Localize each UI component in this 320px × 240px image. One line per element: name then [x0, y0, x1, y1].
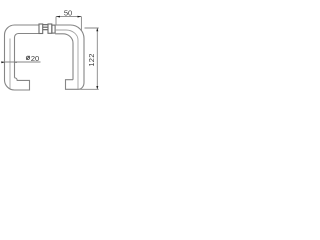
svg-text:20: 20: [31, 54, 39, 63]
dim 50: line: [56, 16, 81, 18]
right grip bottom curled end: [66, 80, 79, 90]
122 bottom arrow: [96, 86, 98, 89]
dim 50: extension lines: [56, 17, 81, 31]
122 top arrow: [96, 28, 98, 31]
dim 122: extension lines: [80, 28, 99, 89]
left lever grip middle contour line: [9, 39, 11, 89]
50 left arrow: [56, 16, 60, 18]
svg-text:122: 122: [87, 53, 96, 66]
right neck bottom contour + inner bend: [55, 34, 73, 80]
spindle lines: [43, 25, 48, 30]
dimension lines: [1, 17, 99, 90]
50 right arrow: [78, 16, 82, 18]
left lever bottom outer curve: [5, 80, 15, 90]
arrowheads: [1, 16, 98, 90]
phi20 left arrow: [1, 61, 4, 63]
right grip bottom outer curve: [79, 83, 85, 90]
dim phi20: line: [1, 61, 41, 63]
right neck top contour + outer bend: [55, 25, 84, 83]
left collar rect: [39, 24, 43, 34]
left lever inner contour (bar bottom + grip right edge): [15, 34, 40, 78]
right rose rect: [48, 24, 52, 33]
right neck middle contour + bend: [55, 30, 78, 89]
left lever outer contour: [5, 25, 40, 80]
right step rect: [52, 25, 55, 33]
phi symbol: [26, 56, 29, 60]
left lever bottom curled end: [15, 78, 30, 90]
dim 122: line: [96, 28, 98, 89]
svg-text:50: 50: [64, 9, 72, 18]
phi20 right arrow: [14, 62, 16, 63]
